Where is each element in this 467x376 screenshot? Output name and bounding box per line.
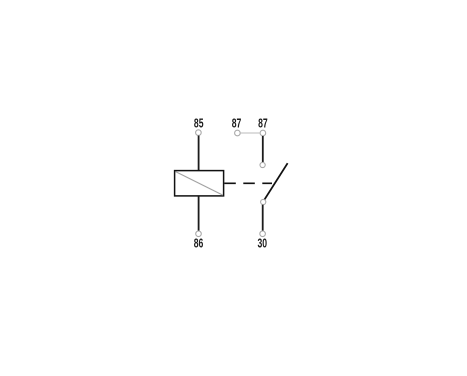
fixed contact node (normally-open contact): [260, 162, 265, 167]
wire: 87 left to 87 right jumper: [240, 132, 260, 134]
coil K1 (relay coil box): [175, 171, 224, 196]
switch armature blade SW1: [264, 163, 288, 200]
svg-text:30: 30: [258, 236, 268, 251]
svg-text:86: 86: [194, 235, 204, 250]
wire: coil down to pin 86: [198, 196, 200, 231]
armature pivot node: [261, 199, 266, 204]
terminal circle 30: [260, 231, 266, 237]
terminal circle 85: [196, 130, 202, 136]
wire: pin 85 down to coil: [198, 136, 200, 171]
mechanical link (dashed) from coil to armature: [224, 182, 272, 184]
coil diagonal line: [176, 172, 223, 196]
wire: pin 87 right down to fixed contact: [262, 136, 264, 162]
svg-text:87: 87: [258, 115, 268, 130]
terminal circle 87 right: [260, 130, 266, 136]
terminal circle 86: [196, 231, 202, 237]
terminal circle 87 left: [235, 130, 241, 136]
svg-text:87: 87: [232, 115, 242, 130]
wire: pivot down to pin 30: [262, 205, 264, 231]
svg-text:85: 85: [194, 115, 204, 130]
